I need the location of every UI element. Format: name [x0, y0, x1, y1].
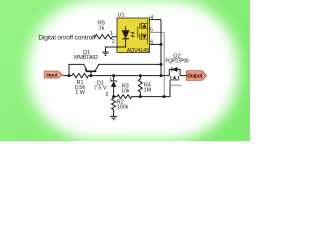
svg-text:10k: 10k	[121, 89, 130, 95]
U1 reference label	[118, 12, 125, 18]
svg-text:1: 1	[109, 78, 112, 84]
svg-text:FQP27P06: FQP27P06	[165, 58, 189, 64]
R4 labels	[144, 83, 152, 94]
node: collector junction	[160, 63, 163, 66]
Q2 body diode	[169, 69, 180, 75]
wire: Q2 drain to output	[180, 75, 186, 77]
wire: pin 5 down to gate line	[163, 32, 165, 96]
R2 labels	[117, 99, 129, 110]
node: pin4-pin6 junction	[160, 43, 163, 46]
resistor R2	[112, 97, 116, 117]
node label: Digital on/off control	[38, 35, 94, 42]
wire: pins 4/6 vertical bus	[160, 20, 162, 76]
svg-text:Output: Output	[187, 73, 202, 79]
svg-text:1 W: 1 W	[75, 90, 85, 96]
Q2 gate shadow bar	[170, 84, 182, 86]
photoMOS relay U1 (AQV414S)	[117, 18, 150, 53]
wire: gate line	[140, 80, 170, 96]
resistor R5	[94, 35, 116, 39]
svg-text:100k: 100k	[117, 105, 129, 111]
wire: U1 pin 6	[150, 43, 162, 45]
R1 value labels	[75, 80, 86, 96]
U1 body diode arrows (top up, bottom down)	[142, 24, 146, 27]
svg-text:AQV414S: AQV414S	[127, 48, 150, 54]
svg-text:Digital on/off control: Digital on/off control	[38, 35, 94, 42]
U1 pin 1 label	[110, 31, 113, 37]
U1 pin 6 label	[150, 40, 153, 46]
wire: main rail D1 to R4 to Q2	[114, 75, 170, 77]
node: R4 top junction	[139, 74, 142, 77]
svg-text:1M: 1M	[144, 88, 152, 94]
D1 pin 2 label	[106, 92, 109, 98]
ground (R2)	[110, 116, 117, 119]
wire: U1 pin 5	[150, 31, 165, 33]
svg-text:2: 2	[106, 92, 109, 98]
node: source rail junction	[160, 74, 163, 77]
input arrow label	[44, 71, 62, 78]
svg-text:1k: 1k	[99, 26, 105, 32]
resistor R4	[138, 76, 142, 97]
U1 pin 5 label	[150, 28, 153, 34]
node: D1/R2/R3 junction	[112, 95, 115, 98]
svg-text:Input: Input	[46, 73, 57, 79]
node: R4 bottom junction	[139, 95, 142, 98]
wire: U1 pin 4	[150, 19, 162, 21]
svg-text:U1: U1	[118, 12, 125, 18]
resistor R1	[72, 73, 114, 77]
output arrow label	[187, 71, 207, 81]
Q2 labels	[165, 54, 189, 65]
wire: input to R1	[63, 75, 72, 77]
U1 internal LED	[117, 27, 126, 48]
D1 labels	[94, 80, 107, 91]
svg-text:MMBTA92: MMBTA92	[74, 55, 98, 61]
Q1 labels	[74, 50, 98, 61]
svg-text:7.5 V: 7.5 V	[94, 85, 107, 91]
wire: U1 pin 2 to ground	[106, 47, 118, 52]
node: pin5/gate junction	[163, 95, 166, 98]
R3 labels	[121, 84, 130, 95]
Q2 channel and gate	[171, 76, 179, 79]
node A: input junction	[68, 74, 71, 77]
wire: emitter branch vertical	[69, 64, 84, 75]
ground (U1 pin 2)	[102, 52, 109, 55]
resistor R3	[114, 95, 141, 99]
U1 pin 2 label	[112, 39, 115, 45]
node: D1 top junction	[112, 74, 115, 77]
zener diode D1	[113, 76, 115, 97]
U1 pin 4 label	[150, 15, 153, 21]
transistor Q1	[84, 65, 87, 71]
U1 part number AQV414S	[127, 48, 150, 54]
R5 value labels	[98, 20, 105, 31]
svg-text:1: 1	[110, 31, 113, 37]
U1 internal MOSFET pair	[137, 27, 139, 38]
control terminal tick	[93, 35, 95, 39]
D1 pin 1 label	[109, 78, 112, 84]
svg-text:2: 2	[112, 39, 115, 45]
node: Q1 base junction	[90, 74, 93, 77]
U1 LED light arrows	[131, 32, 134, 34]
